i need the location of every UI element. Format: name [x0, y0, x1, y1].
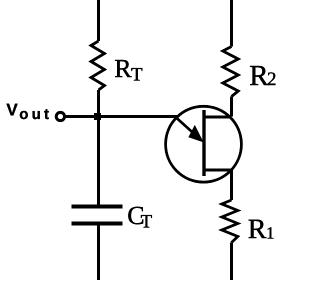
wire: left rail bottom lead	[97, 226, 100, 281]
resistor RT	[91, 41, 105, 90]
svg-text:out: out	[19, 106, 52, 123]
transistor collector lead	[204, 115, 232, 118]
wire: Vout horizontal to transistor base	[65, 115, 177, 118]
svg-text:T: T	[141, 211, 153, 232]
wire: right rail bottom lead	[230, 243, 233, 281]
transistor body circle	[166, 106, 242, 182]
transistor base diagonal lead	[176, 117, 202, 140]
transistor base arrowhead	[190, 127, 203, 141]
node Vout terminal	[56, 112, 64, 120]
capacitor CT bottom plate	[72, 222, 123, 226]
label R1	[248, 214, 275, 245]
transistor Q1	[166, 106, 242, 182]
wire: left rail top lead	[97, 0, 100, 41]
wire: R2 bottom to collector corner	[230, 97, 233, 117]
transistor base bar	[202, 110, 205, 176]
resistor R2	[223, 47, 239, 97]
label Vout	[6, 101, 52, 124]
svg-text:T: T	[131, 65, 143, 86]
resistor R1	[222, 200, 238, 243]
svg-text:R: R	[114, 54, 132, 83]
junction dot at Vout node	[94, 113, 101, 120]
svg-text:1: 1	[266, 224, 275, 243]
capacitor CT top plate	[72, 205, 123, 209]
wire: left rail middle	[97, 90, 100, 205]
label RT	[114, 54, 143, 86]
svg-text:R: R	[248, 214, 267, 245]
transistor emitter lead	[204, 168, 232, 171]
wire: emitter corner down to R1 top	[230, 170, 233, 200]
svg-text:2: 2	[267, 69, 277, 90]
wire: right rail top lead	[230, 0, 233, 47]
svg-text:V: V	[6, 101, 18, 120]
label CT	[127, 201, 152, 232]
label R2	[249, 60, 276, 92]
